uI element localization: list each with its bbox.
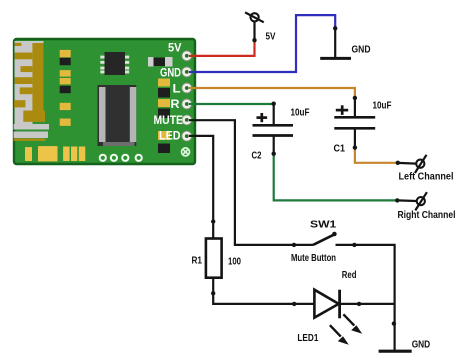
svg-text:GND: GND	[352, 44, 371, 55]
svg-text:LED: LED	[159, 129, 181, 143]
svg-text:10uF: 10uF	[373, 100, 392, 111]
svg-text:C1: C1	[334, 144, 346, 155]
svg-text:GND: GND	[160, 66, 181, 80]
svg-text:5V: 5V	[168, 41, 182, 55]
svg-text:5V: 5V	[266, 32, 276, 43]
svg-text:MUTE: MUTE	[154, 113, 184, 127]
svg-text:R: R	[171, 97, 180, 111]
svg-text:SW1: SW1	[310, 220, 337, 231]
svg-text:GND: GND	[412, 340, 431, 351]
svg-text:Red: Red	[342, 270, 357, 281]
svg-text:Left Channel: Left Channel	[399, 172, 454, 183]
svg-text:Right Channel: Right Channel	[398, 210, 456, 221]
svg-text:Mute Button: Mute Button	[291, 253, 336, 264]
svg-text:100: 100	[228, 257, 241, 268]
svg-text:L: L	[173, 81, 181, 95]
svg-text:LED1: LED1	[297, 333, 318, 344]
svg-text:R1: R1	[192, 255, 203, 266]
svg-text:C2: C2	[252, 151, 262, 162]
svg-text:10uF: 10uF	[291, 107, 310, 118]
